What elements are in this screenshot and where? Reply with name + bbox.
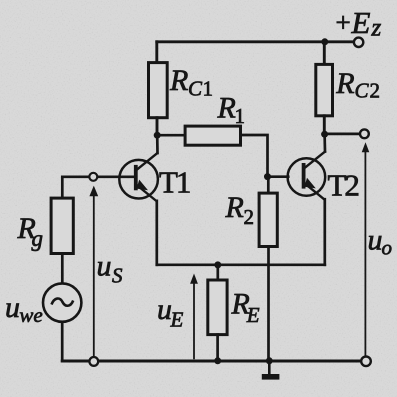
svg-text:T1: T1 [159, 165, 190, 200]
label uE [157, 293, 184, 332]
source uwe [43, 283, 81, 321]
label RC1 [169, 64, 213, 101]
wire R1 right lead to T2 base node [241, 135, 268, 177]
wire RC2 bottom lead [323, 116, 326, 134]
svg-text:R: R [217, 92, 236, 125]
label R2 [225, 191, 255, 229]
node T2 collector junction [321, 131, 328, 138]
ground [262, 361, 280, 380]
svg-text:C: C [355, 79, 370, 103]
svg-text:R: R [335, 67, 354, 100]
label RC2 [335, 67, 380, 103]
terminal input top (uS) [89, 173, 97, 181]
label Rg [17, 212, 44, 251]
wire Rg bottom lead [61, 254, 64, 284]
arrow uE [190, 274, 198, 360]
svg-text:E: E [246, 303, 260, 327]
node T2 base junction [264, 173, 271, 180]
label uo [368, 224, 393, 260]
wire T2 emitter vertical [323, 199, 326, 265]
resistor RC1 [149, 63, 168, 118]
wire supply rail top [157, 40, 354, 43]
wire common emitter rail [157, 263, 325, 266]
terminal output top [360, 129, 369, 138]
resistor RC2 [316, 64, 333, 115]
wire T1 emitter vertical [155, 201, 158, 265]
wire T2 base lead [268, 175, 289, 178]
transistor T1 [119, 153, 158, 202]
terminal output bottom [361, 357, 371, 367]
wire R1 left lead [157, 134, 185, 137]
svg-text:2: 2 [370, 79, 381, 103]
label R1 [217, 92, 246, 129]
svg-text:z: z [371, 15, 382, 42]
wire T1 collector vertical [156, 135, 159, 153]
svg-text:S: S [112, 263, 123, 287]
node RE bottom junction [214, 357, 221, 364]
svg-text:R: R [225, 191, 244, 224]
label uS [97, 250, 124, 288]
node ground junction [266, 357, 273, 364]
node supply junction above RC2 [321, 38, 328, 45]
svg-text:1: 1 [203, 77, 214, 101]
resistor Rg top lead wire [62, 177, 134, 198]
resistor RE [208, 280, 227, 335]
svg-text:1: 1 [235, 104, 246, 128]
svg-text:o: o [382, 236, 393, 260]
svg-text:E: E [170, 308, 184, 332]
svg-text:u: u [5, 291, 20, 324]
svg-text:T2: T2 [328, 168, 359, 203]
label T1 [159, 165, 190, 200]
label RE [231, 288, 260, 328]
svg-text:g: g [32, 226, 44, 251]
wire RC2 top lead [323, 42, 326, 65]
wire RE top lead [216, 265, 219, 280]
label uwe [5, 291, 43, 327]
resistor R2 [259, 193, 277, 246]
svg-text:+: + [336, 8, 351, 38]
svg-text:2: 2 [244, 205, 255, 229]
wire RC1 bottom lead [156, 118, 159, 136]
resistor R1 [185, 126, 240, 145]
transistor T2 [288, 151, 326, 200]
svg-text:R: R [169, 64, 188, 97]
arrow uS [89, 186, 98, 357]
wire T2 collector vertical [323, 134, 326, 151]
arrow uo [362, 142, 370, 356]
wire RE bottom lead [216, 335, 219, 361]
wire source bottom lead [61, 322, 64, 361]
node T1 collector junction [154, 132, 161, 139]
svg-text:C: C [188, 77, 203, 101]
svg-text:u: u [368, 224, 383, 257]
label T2 [328, 168, 359, 203]
svg-text:E: E [351, 5, 371, 40]
resistor Rg [51, 198, 73, 253]
terminal +Ez [354, 38, 363, 47]
node RE top junction [214, 261, 221, 268]
label +Ez [336, 5, 382, 41]
svg-text:u: u [97, 250, 112, 283]
svg-text:we: we [19, 303, 42, 327]
terminal input bottom [89, 357, 98, 366]
wire RC1 top lead [155, 42, 158, 63]
wire R2 bottom lead to ground rail [267, 247, 270, 361]
wire R2 top lead [267, 177, 270, 194]
wire T2 collector to output terminal [325, 133, 360, 136]
wire bottom rail [62, 360, 361, 363]
